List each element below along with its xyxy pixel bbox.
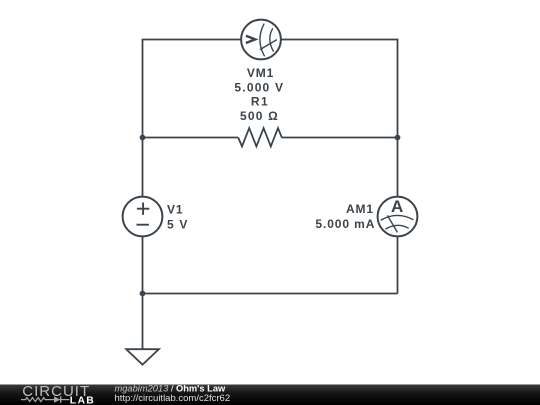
wire top-right segment [281,40,398,138]
svg-text:5.000 V: 5.000 V [234,81,284,95]
wire middle-right segment [282,137,398,139]
wire top-left segment [143,40,242,138]
resistor R1 [238,128,282,146]
ground [126,349,159,364]
svg-text:http://circuitlab.com/c2fcr62: http://circuitlab.com/c2fcr62 [115,393,231,404]
wire bottom segment [143,293,398,295]
svg-text:VM1: VM1 [247,66,274,80]
svg-text:LAB: LAB [70,395,95,405]
wire right vertical top [397,138,399,197]
svg-text:A: A [391,197,403,216]
node A junction left middle [140,135,146,141]
wire middle-left segment [143,137,239,139]
node B junction right middle [395,135,401,141]
wire right vertical bottom [397,236,399,293]
svg-text:mgabim2013 / Ohm's Law: mgabim2013 / Ohm's Law [115,383,226,393]
wire ground stub [142,294,144,350]
wire left vertical middle [142,138,144,197]
CircuitLab logo [21,383,95,405]
svg-text:V1: V1 [167,203,183,217]
svg-text:5 V: 5 V [167,218,189,232]
svg-text:500 Ω: 500 Ω [240,109,279,123]
node C junction left bottom [140,291,146,297]
footer bar [0,385,540,405]
svg-text:5.000 mA: 5.000 mA [315,217,375,231]
svg-text:R1: R1 [251,94,269,108]
voltage source V1 [123,197,163,237]
wire left vertical bottom [142,236,144,293]
ammeter AM1 [378,197,418,237]
voltmeter VM1 [241,20,281,60]
svg-text:AM1: AM1 [346,202,374,216]
